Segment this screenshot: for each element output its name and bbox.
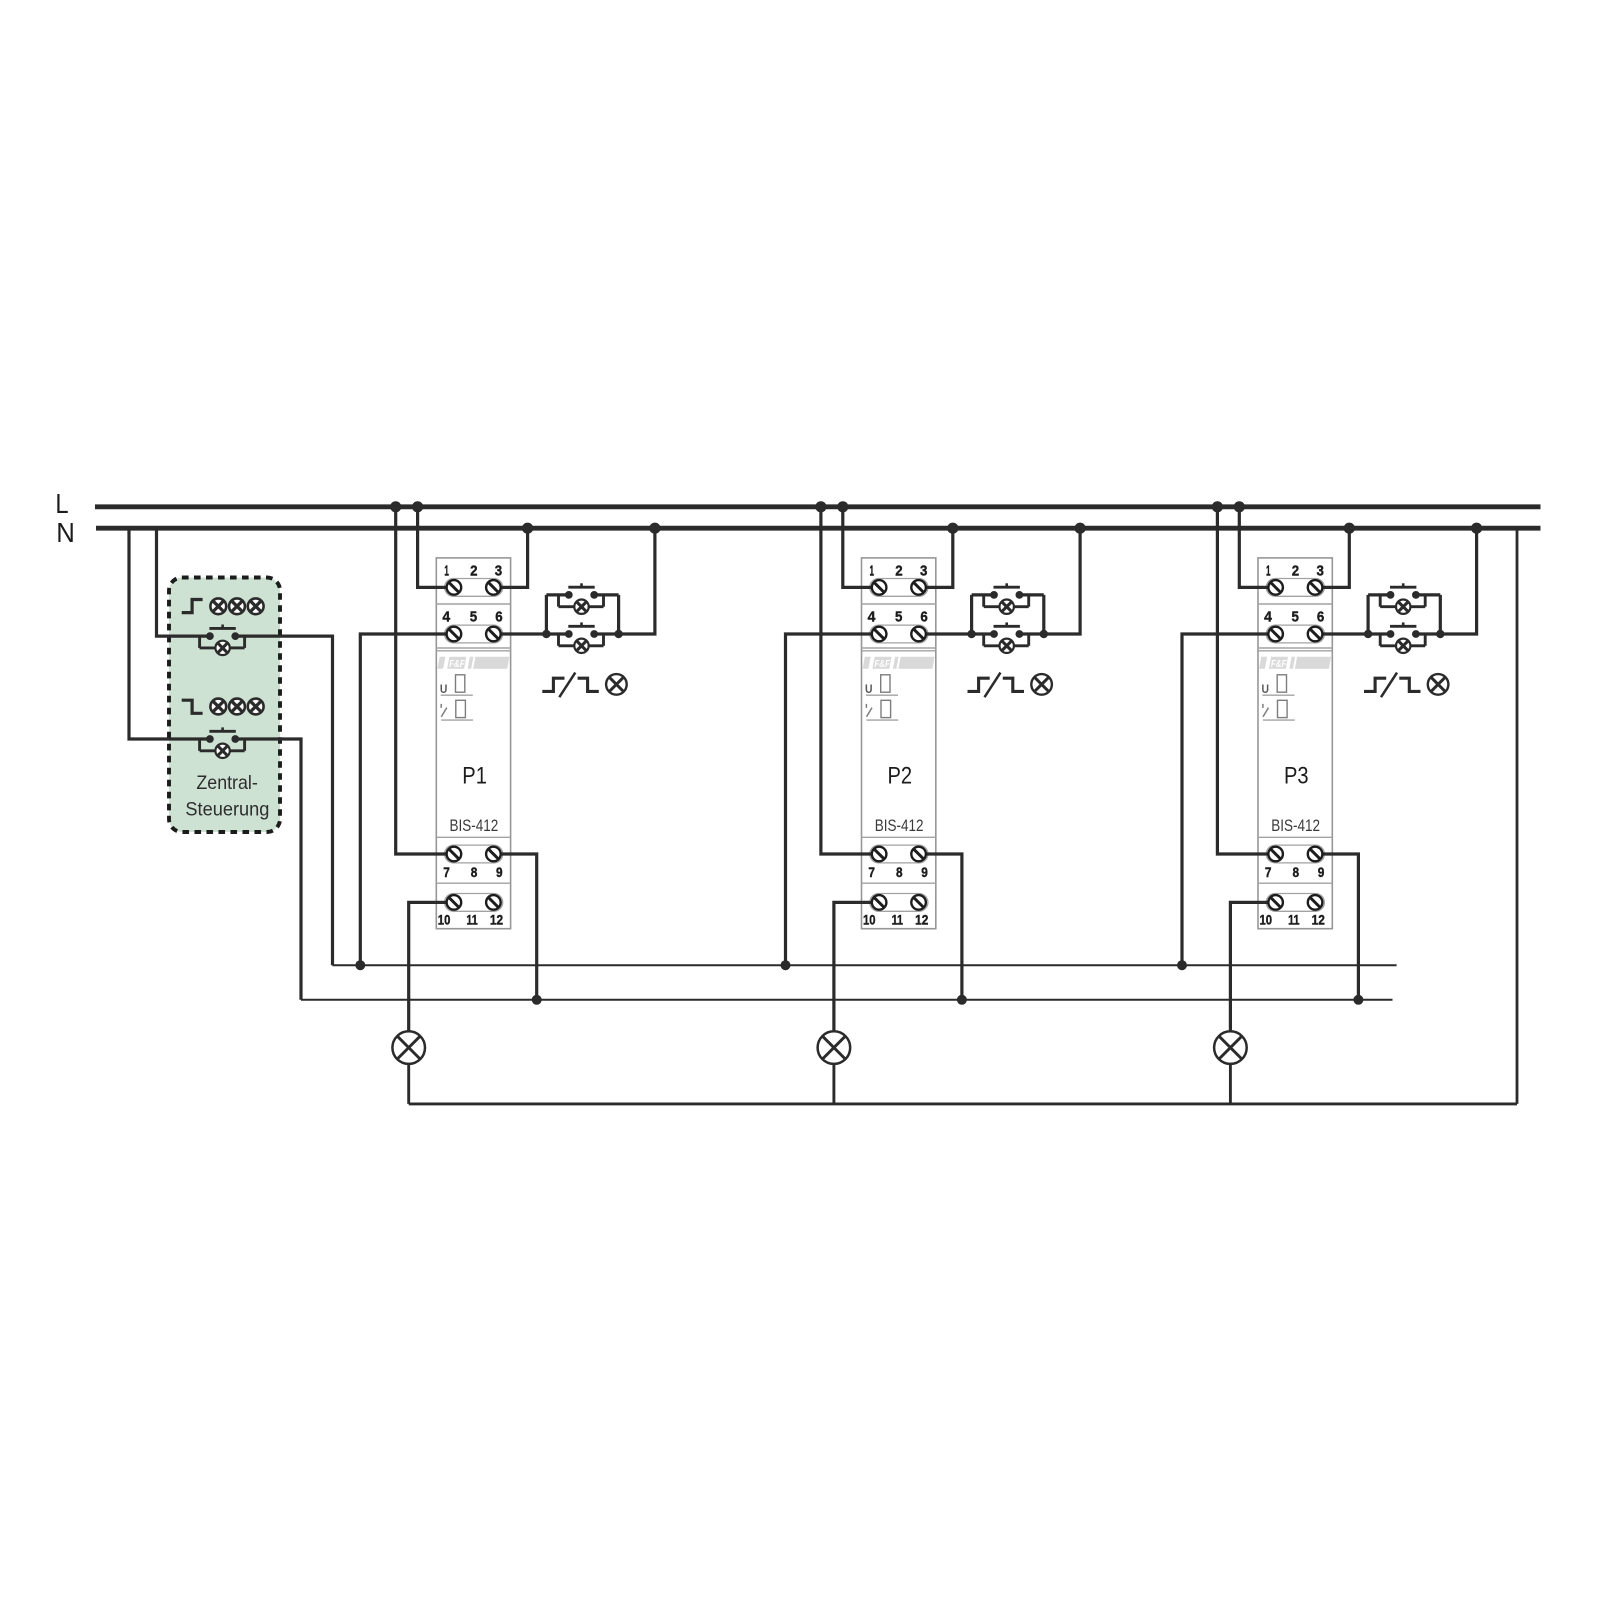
terminal slot 7-9 of P2 [870,845,928,863]
svg-text:Steuerung: Steuerung [185,798,269,820]
lamp group symbol of central ON [210,598,263,614]
wire terminal 6 of P2 to local buttons [919,632,972,635]
svg-text:2: 2 [470,563,477,580]
load lamp E1 [392,1031,425,1064]
junction on L for P2 terminal 7 [815,501,826,512]
group-ON rail (terminal 4 bus) [333,964,1397,966]
svg-text:1: 1 [1266,563,1271,580]
junction on L for P3 terminal 1 [1234,501,1245,512]
lamp group symbol of central OFF [210,699,263,715]
svg-text:BIS-412: BIS-412 [450,816,499,835]
local buttons left bus of P3 [1366,595,1369,634]
svg-text:P2: P2 [888,762,913,789]
wire terminal 3 of P1 to N [493,528,527,587]
junction on L for P2 terminal 1 [837,501,848,512]
push button S3b [1380,622,1425,645]
indicator lamp of push button S1b [574,639,588,653]
svg-text:4: 4 [1264,609,1272,626]
svg-text:8: 8 [896,865,903,880]
F&amp;F logo of P3 [1259,657,1331,670]
svg-text:3: 3 [920,563,927,580]
wire left bus to button S2a [972,593,994,596]
screw terminals 10 and 12 of P3 [1268,895,1322,910]
push button S1a [559,583,604,606]
screw terminals 7 and 9 of P1 [447,847,501,862]
svg-text:11: 11 [892,913,904,928]
wire terminal 3 of P2 to N [919,528,953,587]
wire terminal 9 of P1 to group-OFF rail [493,854,536,1000]
wire L to terminal 7 of P1 [396,507,454,854]
junction on L for P1 terminal 1 [412,501,423,512]
junction of P1 terminal 4 on group-ON rail [355,960,365,970]
terminal numbers 4 5 6 of P2 [868,609,928,626]
terminal numbers 7 8 9 of P1 [443,865,502,880]
wire N to central OFF button [129,528,210,739]
svg-text:4: 4 [442,609,450,626]
svg-text:8: 8 [1293,865,1300,880]
svg-text:9: 9 [1318,865,1325,880]
wire return rail to N [1516,528,1519,1104]
rising/falling edge function symbol at P2 [968,673,1025,698]
svg-text:9: 9 [496,865,503,880]
svg-text:10: 10 [863,913,876,928]
wire terminal 9 of P2 to group-OFF rail [919,854,962,1000]
svg-text:7: 7 [868,865,875,880]
terminal numbers 1 2 3 of P1 [444,563,502,580]
svg-text:N: N [56,517,75,548]
svg-text:F&F: F&F [449,658,465,670]
terminal slot 10-12 of P3 [1266,894,1324,912]
svg-text:Zentral-: Zentral- [196,772,257,794]
indicator lamp of push button S1a [574,600,588,614]
svg-text:6: 6 [495,609,502,626]
terminal numbers 10 11 12 of P3 [1260,913,1325,928]
svg-text:U: U [1262,684,1270,696]
svg-text:L: L [55,488,68,519]
wire terminal 10 of P2 to load lamp [834,902,879,1031]
junction right bus of P1 buttons [614,630,622,638]
indicator lamp of push button central ON [215,641,229,655]
screw terminals 10 and 12 of P2 [872,895,926,910]
svg-text:11: 11 [466,913,478,928]
terminal slot 7-9 of P1 [445,845,503,863]
F&amp;F logo of P2 [863,657,935,670]
svg-text:1: 1 [444,563,449,580]
local buttons left bus of P1 [545,595,548,634]
svg-text:10: 10 [438,913,451,928]
wire button S2a to right bus [1019,593,1043,596]
svg-text:6: 6 [1317,609,1324,626]
push button S3a [1380,583,1425,606]
terminal slot 10-12 of P1 [445,894,503,912]
push button central ON [200,625,245,648]
junction on N for P1 buttons [649,523,660,534]
svg-text:1: 1 [870,563,875,580]
svg-text:U: U [865,684,873,696]
power LED icon U of P2 [865,675,898,696]
wire through button S1b left segment [546,632,568,635]
screw terminals 10 and 12 of P1 [447,895,501,910]
svg-text:2: 2 [895,563,902,580]
screw terminals 4 and 6 of P1 [447,627,501,642]
svg-text:3: 3 [1317,563,1324,580]
wire terminal 9 of P3 to group-OFF rail [1315,854,1358,1000]
terminal slot 1-3 of P1 [445,579,503,597]
Zentral-Steuerung group box [169,578,280,833]
indicator lamp of push button central OFF [215,744,229,758]
wire L to terminal 1 of P2 [843,507,879,588]
terminal numbers 1 2 3 of P3 [1266,563,1324,580]
wire through button S1b right segment [594,632,618,635]
svg-text:10: 10 [1260,913,1273,928]
wire button S1a to right bus [594,593,618,596]
lamp return rail [409,1102,1517,1105]
wire terminal 6 of P3 to local buttons [1315,632,1368,635]
junction on N for P3 terminal 3 [1344,523,1355,534]
junction on L for P3 terminal 7 [1212,501,1223,512]
wire terminal 3 of P3 to N [1315,528,1349,587]
junction of P1 terminal 9 on group-OFF rail [532,995,542,1005]
indicator lamp of push button S3b [1396,639,1410,653]
wire load lamp E3 to return rail [1229,1064,1232,1104]
junction of P2 terminal 4 on group-ON rail [781,960,791,970]
svg-text:F&F: F&F [1271,658,1287,670]
power LED icon U of P3 [1262,675,1295,696]
svg-text:12: 12 [1312,913,1325,928]
wire button S3a to right bus [1416,593,1440,596]
wire N to central ON button [157,528,210,636]
svg-text:7: 7 [1265,865,1272,880]
terminal numbers 7 8 9 of P3 [1265,865,1324,880]
local buttons left bus of P2 [970,595,973,634]
wire left bus to button S3a [1368,593,1390,596]
svg-text:9: 9 [921,865,928,880]
junction right bus of P3 buttons [1436,630,1444,638]
terminal numbers 7 8 9 of P2 [868,865,927,880]
terminal slot 10-12 of P2 [870,894,928,912]
wire through button S2b left segment [972,632,994,635]
wire terminal 4 of P2 to group-ON rail [786,634,880,965]
L bus line [95,504,1541,509]
terminal slot 1-3 of P3 [1266,579,1324,597]
wire L to terminal 7 of P2 [821,507,879,854]
wire through button S3b left segment [1368,632,1390,635]
terminal slot 7-9 of P3 [1266,845,1324,863]
terminal slot 4-6 of P3 [1266,625,1324,643]
screw terminals 7 and 9 of P2 [872,847,926,862]
junction on L for P1 terminal 7 [390,501,401,512]
junction on N for P2 terminal 3 [947,523,958,534]
svg-text:5: 5 [470,609,477,626]
svg-text:4: 4 [868,609,876,626]
junction on N for P2 buttons [1075,523,1086,534]
rising edge symbol (central ON) [182,600,203,613]
lamp symbol of function icon at P3 [1428,674,1449,695]
local buttons right bus of P3 [1439,595,1442,634]
indicator lamp of push button S2a [1000,600,1014,614]
svg-text:3: 3 [495,563,502,580]
relay contact LED icon of P1 [441,700,473,720]
wire terminal 4 of P3 to group-ON rail [1182,634,1276,965]
terminal numbers 4 5 6 of P1 [442,609,502,626]
junction left bus of P1 buttons [542,630,550,638]
junction on N for P3 buttons [1471,523,1482,534]
relay contact LED icon of P3 [1263,700,1295,720]
terminal slot 4-6 of P1 [445,625,503,643]
junction of P3 terminal 4 on group-ON rail [1177,960,1187,970]
F&amp;F logo of P1 [437,657,509,670]
svg-text:P3: P3 [1284,762,1309,789]
push button S2b [984,622,1029,645]
wire load lamp E1 to return rail [407,1064,410,1104]
svg-text:7: 7 [443,865,450,880]
indicator lamp of push button S2b [1000,639,1014,653]
N bus line [96,526,1541,531]
svg-text:F&F: F&F [874,658,890,670]
terminal slot 1-3 of P2 [870,579,928,597]
junction left bus of P3 buttons [1364,630,1372,638]
wire terminal 4 of P1 to group-ON rail [360,634,454,965]
load lamp E2 [818,1031,851,1064]
terminal numbers 4 5 6 of P3 [1264,609,1324,626]
wire L to terminal 7 of P3 [1217,507,1275,854]
svg-text:5: 5 [895,609,902,626]
rising/falling edge function symbol at P3 [1364,673,1421,698]
group-OFF rail (terminal 9 bus) [301,999,1393,1001]
wire through button S2b right segment [1019,632,1043,635]
wire terminal 10 of P3 to load lamp [1230,902,1275,1031]
wire L to terminal 1 of P1 [418,507,454,588]
wire load lamp E2 to return rail [832,1064,835,1104]
svg-text:12: 12 [490,913,503,928]
junction of P2 terminal 9 on group-OFF rail [957,995,967,1005]
screw terminals 1 and 3 of P3 [1268,580,1322,595]
svg-text:11: 11 [1288,913,1300,928]
relay module P2 (BIS-412) body [862,558,936,929]
indicator lamp of push button S3a [1396,600,1410,614]
svg-text:P1: P1 [462,762,487,789]
local buttons right bus of P2 [1042,595,1045,634]
junction of P3 terminal 9 on group-OFF rail [1353,995,1363,1005]
wire central ON button to group-ON rail [235,636,332,965]
svg-text:U: U [440,684,448,696]
terminal numbers 10 11 12 of P1 [438,913,503,928]
rising/falling edge function symbol at P1 [542,673,599,698]
relay contact LED icon of P2 [866,700,898,720]
svg-text:BIS-412: BIS-412 [875,816,924,835]
wire central OFF button to group-OFF rail [235,739,301,1000]
wire terminal 10 of P1 to load lamp [409,902,454,1031]
terminal slot 4-6 of P2 [870,625,928,643]
junction right bus of P2 buttons [1040,630,1048,638]
screw terminals 4 and 6 of P3 [1268,627,1322,642]
relay module P3 (BIS-412) body [1258,558,1332,929]
junction on N for P1 terminal 3 [522,523,533,534]
push button S2a [984,583,1029,606]
lamp symbol of function icon at P2 [1031,674,1052,695]
svg-text:BIS-412: BIS-412 [1271,816,1320,835]
screw terminals 1 and 3 of P2 [872,580,926,595]
wire left bus to button S1a [546,593,568,596]
wire buttons of P1 to N [619,528,655,634]
wire buttons of P2 to N [1044,528,1080,634]
push button S1b [559,622,604,645]
wire buttons of P3 to N [1440,528,1476,634]
svg-text:12: 12 [915,913,928,928]
relay module P1 (BIS-412) body [436,558,510,929]
svg-text:6: 6 [920,609,927,626]
terminal numbers 10 11 12 of P2 [863,913,928,928]
junction left bus of P2 buttons [967,630,975,638]
local buttons right bus of P1 [617,595,620,634]
svg-text:5: 5 [1292,609,1299,626]
load lamp E3 [1214,1031,1247,1064]
svg-text:2: 2 [1292,563,1299,580]
screw terminals 7 and 9 of P3 [1268,847,1322,862]
wire through button S3b right segment [1416,632,1440,635]
wire L to terminal 1 of P3 [1239,507,1275,588]
svg-text:8: 8 [471,865,478,880]
wire terminal 6 of P1 to local buttons [493,632,546,635]
power LED icon U of P1 [440,675,473,696]
lamp symbol of function icon at P1 [606,674,627,695]
screw terminals 4 and 6 of P2 [872,627,926,642]
screw terminals 1 and 3 of P1 [447,580,501,595]
push button central OFF [200,727,245,750]
terminal numbers 1 2 3 of P2 [870,563,928,580]
falling edge symbol (central OFF) [182,700,203,713]
